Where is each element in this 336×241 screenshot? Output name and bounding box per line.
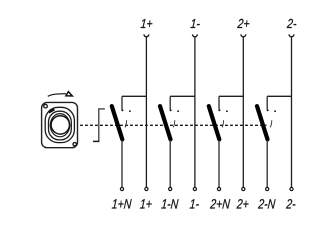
rotary actuator U1 body flange bbox=[42, 102, 78, 147]
bottom terminal circle 2-N bbox=[266, 187, 269, 190]
wire: lower stub 1+N bbox=[121, 140, 123, 187]
svg-text:1+: 1+ bbox=[139, 196, 152, 212]
movement tick pole 2 bbox=[173, 120, 175, 127]
svg-text:2-: 2- bbox=[286, 16, 297, 31]
top terminal socket 1+ bbox=[144, 34, 149, 36]
movement tick pole 4 bbox=[270, 120, 272, 127]
actuator inner ring bbox=[50, 114, 69, 137]
top terminal socket 2+ bbox=[241, 34, 246, 36]
wire: main line 2+ bbox=[242, 37, 244, 187]
svg-text:2+: 2+ bbox=[235, 196, 249, 212]
bottom terminal circle 2- bbox=[290, 187, 293, 190]
wire: main line 1+ bbox=[145, 37, 147, 187]
svg-text:1+: 1+ bbox=[140, 16, 153, 31]
wire: upper stub 2+N bbox=[218, 96, 220, 109]
top terminal socket 1- bbox=[193, 34, 198, 36]
wire: upper stub 1-N bbox=[169, 96, 171, 109]
wire: lower stub 2-N bbox=[266, 140, 268, 187]
second contact dot pole 1 bbox=[129, 110, 131, 112]
wire: branch to N stub bbox=[170, 95, 195, 97]
bottom terminal circle 1+N bbox=[120, 187, 123, 190]
fixed contact dot pole 2 bbox=[170, 109, 172, 111]
wire: branch to N stub bbox=[122, 95, 146, 97]
second contact dot pole 3 bbox=[226, 110, 228, 112]
wire: branch to N stub bbox=[219, 95, 243, 97]
svg-text:2-N: 2-N bbox=[257, 196, 276, 212]
svg-text:1-: 1- bbox=[189, 196, 199, 212]
contact blade pole 1 bbox=[112, 106, 123, 139]
actuator middle ring bbox=[49, 111, 72, 140]
actuator hex shaft hole bbox=[51, 116, 69, 134]
mechanical link dashed line bbox=[80, 124, 267, 126]
contact blade pole 4 bbox=[257, 106, 268, 139]
rotation arrow head bbox=[66, 92, 72, 96]
coupling bracket bottom tick bbox=[93, 140, 100, 142]
fixed contact dot pole 4 bbox=[267, 109, 269, 111]
svg-text:1-N: 1-N bbox=[161, 196, 179, 212]
contact blade pole 3 bbox=[209, 106, 220, 139]
top terminal socket 2- bbox=[289, 34, 294, 36]
svg-text:2+N: 2+N bbox=[209, 196, 231, 212]
wire: upper stub 2-N bbox=[266, 96, 268, 109]
wire: branch to N stub bbox=[267, 95, 291, 97]
wire: lower stub 1-N bbox=[169, 140, 171, 187]
bottom terminal circle 2+N bbox=[217, 187, 220, 190]
mounting hole bottom-right bbox=[73, 143, 76, 146]
bottom terminal circle 1-N bbox=[169, 187, 172, 190]
wire: main line 2- bbox=[291, 37, 293, 187]
wire: main line 1- bbox=[194, 37, 196, 187]
svg-text:1+N: 1+N bbox=[111, 196, 132, 212]
fixed contact dot pole 3 bbox=[218, 109, 220, 111]
mounting hole top-left bbox=[44, 104, 48, 108]
bottom terminal circle 1- bbox=[193, 187, 196, 190]
bottom terminal circle 2+ bbox=[242, 187, 245, 190]
movement tick pole 3 bbox=[222, 120, 224, 127]
coupling bracket vertical bbox=[98, 109, 100, 141]
movement tick pole 1 bbox=[125, 120, 127, 127]
wire: lower stub 2+N bbox=[218, 140, 220, 187]
svg-text:1-: 1- bbox=[190, 16, 201, 31]
wire: upper stub 1+N bbox=[121, 96, 123, 109]
rotation arrow shaft bbox=[48, 94, 66, 97]
svg-text:2-: 2- bbox=[285, 196, 296, 212]
second contact dot pole 4 bbox=[274, 110, 276, 112]
svg-text:2+: 2+ bbox=[236, 16, 250, 31]
bottom terminal circle 1+ bbox=[145, 187, 148, 190]
actuator index notch bbox=[49, 109, 55, 112]
coupling bracket top tick bbox=[98, 108, 105, 110]
contact blade pole 2 bbox=[160, 106, 171, 139]
second contact dot pole 2 bbox=[177, 110, 179, 112]
fixed contact dot pole 1 bbox=[121, 109, 123, 111]
actuator outer bezel ring bbox=[45, 107, 74, 142]
